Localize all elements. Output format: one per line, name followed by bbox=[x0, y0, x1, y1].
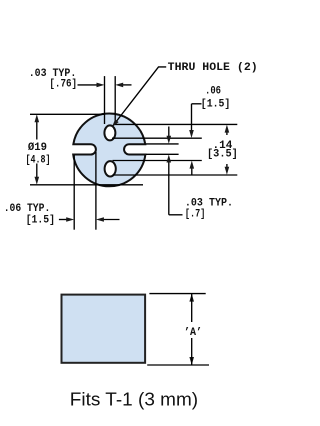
top hole upper tangent extension (A) bbox=[114, 123, 237, 125]
arrowhead height A bottom bbox=[189, 357, 194, 365]
spacer side view square bbox=[62, 295, 146, 363]
hole gap dim vertical upper bbox=[191, 104, 193, 131]
arrowhead diameter bottom bbox=[35, 177, 40, 185]
svg-text:[.76]: [.76] bbox=[49, 79, 77, 91]
arrowhead diameter top bbox=[35, 114, 40, 122]
slot depth right extension line bbox=[95, 152, 97, 230]
hole width right extension line bbox=[114, 76, 116, 124]
slot width dim vertical lower bbox=[168, 162, 170, 215]
right slot top edge extension bbox=[146, 143, 179, 145]
svg-text:Ø19: Ø19 bbox=[28, 142, 47, 154]
svg-text:[4.8]: [4.8] bbox=[26, 155, 51, 167]
hole gap dim vertical lower stub bbox=[191, 167, 193, 175]
arrowhead hole gap upper bbox=[189, 130, 194, 138]
arrowhead slot width lower bbox=[167, 155, 172, 163]
svg-text:[1.5]: [1.5] bbox=[26, 214, 55, 226]
svg-text:Fits T-1 (3 mm): Fits T-1 (3 mm) bbox=[70, 389, 198, 410]
square bottom extension line bbox=[147, 364, 209, 366]
arrowhead hole gap lower bbox=[190, 161, 195, 169]
right slot bottom edge extension bbox=[146, 153, 179, 155]
height A dim line upper bbox=[191, 294, 193, 322]
svg-text:[1.5]: [1.5] bbox=[201, 99, 231, 111]
slot depth left extension line bbox=[73, 155, 75, 230]
slot depth right arrow tail bbox=[103, 219, 120, 221]
top hole lower tangent extension (B) bbox=[112, 137, 202, 139]
svg-text:’A’: ’A’ bbox=[184, 327, 202, 339]
arrowhead slot width upper bbox=[167, 136, 172, 144]
svg-text:.06 TYP.: .06 TYP. bbox=[4, 203, 51, 215]
slot depth left arrow tail bbox=[59, 219, 68, 221]
hole span dim lower stub bbox=[226, 164, 228, 168]
bottom hole lower tangent extension (D) bbox=[113, 174, 238, 176]
spacer body: circle with left and right side slots (top view) bbox=[73, 114, 145, 187]
arrowhead hole span top bbox=[225, 125, 230, 133]
circle top tangent extension line bbox=[30, 113, 105, 115]
hole width left extension line bbox=[104, 76, 106, 124]
slot width dim vertical upper stub bbox=[168, 127, 170, 137]
arrowhead slot depth right bbox=[96, 217, 104, 222]
diameter dimension line upper segment bbox=[36, 121, 38, 140]
bottom thru hole bbox=[105, 161, 116, 176]
arrowhead thru hole leader bbox=[112, 119, 119, 127]
svg-text:.06: .06 bbox=[205, 86, 221, 98]
arrowhead hole span bottom bbox=[225, 167, 230, 175]
thru hole leader line bbox=[113, 67, 166, 126]
diameter dimension line lower segment bbox=[36, 164, 38, 179]
top thru hole bbox=[104, 125, 115, 140]
hole gap label elbow bbox=[192, 103, 202, 105]
svg-text:[.7]: [.7] bbox=[185, 208, 205, 220]
square top extension line bbox=[149, 293, 205, 295]
arrowhead slot depth left bbox=[66, 217, 74, 222]
arrowhead height A top bbox=[189, 294, 194, 302]
circle bottom tangent extension line bbox=[30, 184, 143, 186]
bottom hole upper tangent extension (C) bbox=[113, 160, 202, 162]
hole span dim upper stub bbox=[226, 132, 228, 136]
hole width left arrow tail bbox=[78, 84, 99, 86]
height A dim line lower bbox=[191, 338, 193, 365]
svg-text:THRU HOLE (2): THRU HOLE (2) bbox=[168, 62, 258, 74]
arrowhead hole width left bbox=[97, 83, 105, 88]
arrowhead hole width right bbox=[115, 83, 123, 88]
svg-text:[3.5]: [3.5] bbox=[207, 149, 238, 161]
slot width label elbow bbox=[169, 214, 183, 216]
hole width right arrow tail bbox=[122, 84, 132, 86]
